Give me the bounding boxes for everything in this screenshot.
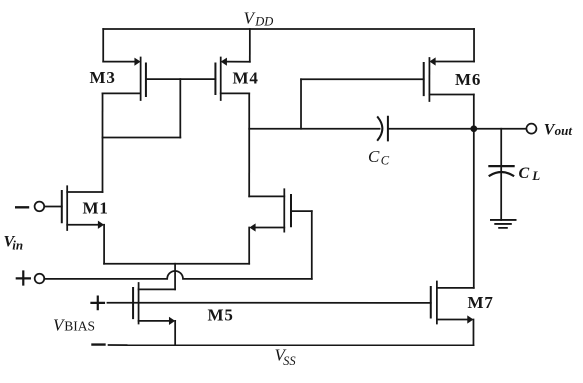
transistor M2 xyxy=(249,189,312,231)
label VBIAS xyxy=(53,316,95,335)
wire VSS rail xyxy=(109,344,474,346)
transistor M7 xyxy=(431,282,474,324)
terminal minus input circle xyxy=(35,202,45,212)
svg-text:M6: M6 xyxy=(455,70,481,89)
plus sign VBIAS xyxy=(91,297,104,310)
wire M1 source riser xyxy=(103,225,105,264)
terminal Vout circle xyxy=(526,124,536,134)
ground xyxy=(491,220,516,228)
minus sign VSS xyxy=(92,343,104,345)
wire M6 gate riser xyxy=(300,79,302,128)
wire M2 source riser xyxy=(248,227,250,263)
wire M4/M2 drain riser xyxy=(248,93,250,196)
svg-text:out: out xyxy=(555,123,573,138)
wire M6 drain down to output node and M7 drain riser xyxy=(473,95,475,288)
wire M3 gate to M4 gate xyxy=(146,78,216,80)
wire plus input line with hop over M5 drain riser xyxy=(44,271,312,279)
wire first-stage output to compensation cap xyxy=(249,128,379,130)
svg-text:C: C xyxy=(368,147,380,166)
wire VDD right drop to M6 source xyxy=(473,29,475,62)
wire CC right to output node xyxy=(388,128,526,130)
wire CL top from output line xyxy=(500,129,502,220)
wire VDD left drop to M3 source xyxy=(102,29,104,62)
svg-text:C: C xyxy=(519,165,530,182)
transistor M5 xyxy=(133,283,175,325)
svg-text:M1: M1 xyxy=(82,199,108,218)
wire gate-drain tie vertical drop xyxy=(179,79,181,137)
wire M5 source drop to VSS xyxy=(174,321,176,345)
wire VDD middle drop to M4 source xyxy=(249,29,251,62)
transistor M4 xyxy=(215,57,249,100)
svg-text:M4: M4 xyxy=(233,69,259,88)
wire M5 drain riser xyxy=(174,264,176,290)
svg-text:DD: DD xyxy=(254,14,273,28)
transistor M6 xyxy=(424,57,474,101)
minus sign xyxy=(16,206,28,208)
transistor M1 xyxy=(44,186,104,230)
plus sign xyxy=(17,271,30,284)
svg-text:M3: M3 xyxy=(90,68,116,87)
capacitor CL xyxy=(489,166,513,176)
label Vin xyxy=(3,234,23,253)
wire tail node line xyxy=(104,263,249,265)
terminal plus input circle xyxy=(35,274,45,284)
capacitor CC xyxy=(378,117,388,141)
svg-text:M5: M5 xyxy=(207,305,233,324)
wire M7 source drop to VSS xyxy=(472,320,474,346)
wire VDD rail xyxy=(103,28,474,30)
wire VBIAS gate line to M5 and M7 xyxy=(107,302,430,304)
svg-text:L: L xyxy=(531,168,540,183)
svg-text:M7: M7 xyxy=(467,293,493,312)
wire gate-drain tie horizontal xyxy=(103,136,181,138)
label Vout xyxy=(544,121,573,138)
label CC xyxy=(368,147,390,168)
node VDD label xyxy=(244,9,274,29)
label CL xyxy=(519,165,541,183)
transistor M3 xyxy=(103,57,146,100)
wire M3 drain riser down to M1 drain xyxy=(101,93,103,192)
svg-text:in: in xyxy=(12,238,23,253)
wire M2 gate riser down to plus line xyxy=(311,211,313,279)
svg-text:C: C xyxy=(381,154,390,168)
wire M6 gate lead xyxy=(301,78,424,80)
label VSS xyxy=(274,345,296,367)
node output junction dot xyxy=(470,125,477,132)
svg-text:BIAS: BIAS xyxy=(64,319,95,334)
svg-text:SS: SS xyxy=(283,354,296,368)
